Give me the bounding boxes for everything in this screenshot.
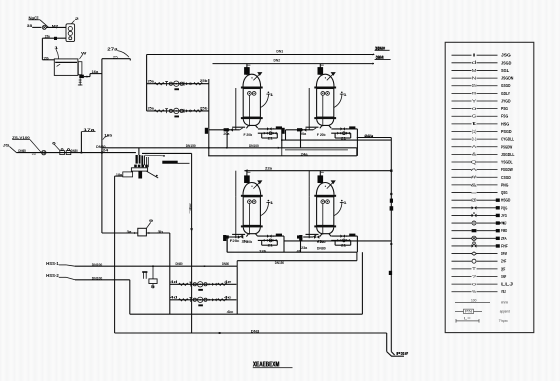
svg-text:21: 21 xyxy=(268,136,273,140)
F1 vent riser + valve xyxy=(244,64,262,81)
short link y150 xyxy=(285,149,348,151)
svg-text:PSG: PSG xyxy=(501,106,509,111)
svg-text:m: m xyxy=(472,91,477,96)
outfall hook label xyxy=(396,351,408,357)
svg-text:JYGD: JYGD xyxy=(501,98,511,103)
svg-text:JYG: JYG xyxy=(501,213,507,218)
riser V4 xyxy=(81,132,83,154)
H1 end arrow xyxy=(373,53,375,55)
pump P1a train xyxy=(147,79,209,90)
svg-text:YBJ: YBJ xyxy=(501,289,506,294)
tank T0 feed label xyxy=(29,16,49,28)
outfall hook xyxy=(387,352,404,357)
callout underlined xyxy=(12,136,41,152)
sampler tag xyxy=(151,285,155,289)
H5 label 2 xyxy=(71,149,78,153)
svg-text:DN3: DN3 xyxy=(251,330,259,334)
svg-text:(1): (1) xyxy=(472,129,477,134)
svg-text:38M#: 38M# xyxy=(375,46,386,51)
pipe softener to tank xyxy=(42,38,66,60)
svg-text:LLJ: LLJ xyxy=(501,282,514,287)
T-branch label xyxy=(364,135,375,139)
inlet2 flag xyxy=(46,261,75,266)
pipe VB xyxy=(114,176,116,333)
H5 label 3 xyxy=(102,149,108,153)
svg-text:Y: Y xyxy=(472,98,477,103)
svg-text:24a: 24a xyxy=(301,152,309,156)
svg-text:PQG: PQG xyxy=(501,205,508,210)
weir tag W xyxy=(80,52,88,59)
pump discharge header xyxy=(236,266,238,314)
svg-text:G: G xyxy=(472,114,477,119)
weir box xyxy=(78,62,82,75)
svg-text:DN100: DN100 xyxy=(92,276,102,280)
gate valve tag xyxy=(52,141,60,150)
H2 end arrow xyxy=(372,62,374,64)
svg-text:xx: xx xyxy=(78,83,84,87)
svg-text:FSG: FSG xyxy=(501,114,509,119)
svg-text:15b: 15b xyxy=(43,57,48,61)
svg-text:4e: 4e xyxy=(224,296,233,300)
tank outlet valve xyxy=(79,75,90,78)
svg-text:39M: 39M xyxy=(376,55,384,60)
pipe bottom outfall xyxy=(115,332,387,334)
svg-text:4c: 4c xyxy=(227,310,234,314)
svg-text:HSG: HSG xyxy=(501,121,510,126)
svg-text:T: T xyxy=(472,266,477,271)
feed header label xyxy=(265,166,273,170)
softener U2 tag xyxy=(72,17,79,23)
legend box xyxy=(445,42,534,332)
svg-text:HSS-1: HSS-1 xyxy=(46,261,59,266)
svg-text:Q: Q xyxy=(471,159,477,165)
pipe H5 xyxy=(16,152,135,154)
F3 feed riser + valve xyxy=(236,171,263,197)
svg-text:DN100: DN100 xyxy=(249,144,259,148)
svg-text:DN100: DN100 xyxy=(92,263,102,267)
svg-text:mm: mm xyxy=(501,301,508,305)
svg-text:DN1: DN1 xyxy=(276,50,284,54)
dosing riser xyxy=(138,148,140,155)
svg-text:I: I xyxy=(472,53,477,58)
line2 label xyxy=(92,276,102,280)
manifold row1 F1 xyxy=(205,126,282,147)
svg-text:TYspec: TYspec xyxy=(499,319,508,323)
svg-text:21: 21 xyxy=(341,244,346,248)
svg-text:F 20b: F 20b xyxy=(244,133,253,137)
dosing label xyxy=(52,24,59,28)
svg-text:|4|: |4| xyxy=(189,202,192,214)
pipe H1 header xyxy=(147,54,375,56)
valve V3 black xyxy=(54,37,57,40)
valve XV1 xyxy=(42,25,66,29)
svg-text:16b: 16b xyxy=(104,133,113,137)
pipe label 15b xyxy=(43,57,48,61)
dosing pointer xyxy=(146,171,158,178)
dosing unit pumps xyxy=(136,155,149,167)
svg-text:%: % xyxy=(472,289,477,294)
pipe meter to suction xyxy=(146,232,169,234)
label above H6 left xyxy=(96,145,105,149)
pipe H7 drain collector xyxy=(208,155,357,157)
svg-text:25b: 25b xyxy=(200,106,208,110)
meter box xyxy=(134,219,153,236)
pipe label 15a xyxy=(45,35,50,39)
svg-text:NaCl: NaCl xyxy=(29,16,40,22)
pipe riser x362 xyxy=(361,252,363,314)
svg-text:DN50: DN50 xyxy=(71,149,78,153)
tank outlet pipe xyxy=(90,74,102,77)
svg-text:DN150: DN150 xyxy=(186,144,196,148)
pipe VA to meter xyxy=(102,232,138,234)
valve XV2 xyxy=(42,150,46,154)
sampler box xyxy=(149,266,157,288)
svg-text:A: A xyxy=(472,144,477,149)
svg-text:24: 24 xyxy=(102,149,108,153)
svg-text:DN150: DN150 xyxy=(275,261,284,265)
svg-text:17a: 17a xyxy=(83,128,95,132)
svg-text:DFM: DFM xyxy=(501,251,507,256)
F2 vent riser + valve xyxy=(318,64,336,81)
H6 labels xyxy=(186,144,280,149)
T1 right drop junction xyxy=(281,139,283,156)
svg-text:PS#: PS# xyxy=(397,351,409,357)
VD label xyxy=(189,202,193,232)
H2 label xyxy=(274,58,281,62)
row2 labels xyxy=(301,246,326,251)
svg-text:M: M xyxy=(472,68,477,73)
H5 label DN xyxy=(18,149,25,153)
svg-text:DN80: DN80 xyxy=(222,262,229,266)
inlet3 flag xyxy=(46,273,75,280)
pipe inlet line2 xyxy=(75,280,130,314)
svg-text:#: # xyxy=(471,175,478,181)
svg-text:4b: 4b xyxy=(297,249,302,253)
filter vessel F4 xyxy=(309,183,348,239)
suction label xyxy=(227,310,234,314)
svg-text:23b: 23b xyxy=(259,250,267,254)
svg-text:HSS-2: HSS-2 xyxy=(46,273,59,278)
svg-text:2: 2 xyxy=(75,17,79,21)
svg-text:1: 1 xyxy=(270,201,274,205)
sampler hatches xyxy=(142,271,147,279)
F3 left leg xyxy=(227,237,239,252)
pipe inlet line1 xyxy=(75,262,237,267)
small box at VB top xyxy=(115,172,133,177)
svg-text:16a: 16a xyxy=(92,70,100,74)
svg-text:L=: L= xyxy=(464,317,471,321)
svg-text:QBF: QBF xyxy=(501,266,505,271)
svg-text:25: 25 xyxy=(113,56,118,60)
title text xyxy=(253,359,293,368)
pipe suction y314 xyxy=(130,313,363,315)
svg-text:4d: 4d xyxy=(170,280,178,284)
svg-text:25a: 25a xyxy=(148,79,155,83)
pump suction header xyxy=(169,233,171,314)
H1 label xyxy=(276,50,284,54)
manifold row2 F4 xyxy=(297,234,357,253)
svg-text:JSGDN: JSGDN xyxy=(501,76,513,81)
pump P2b train xyxy=(170,296,237,307)
drain stub xyxy=(78,78,84,87)
svg-text:DN65: DN65 xyxy=(18,149,25,153)
H7 label xyxy=(301,152,309,156)
dosing shelf xyxy=(131,168,147,171)
svg-text:DN80: DN80 xyxy=(96,145,105,149)
line1 label xyxy=(92,263,102,267)
filter vessel F1 xyxy=(236,74,275,130)
svg-text:18a: 18a xyxy=(116,173,122,177)
svg-text:25a: 25a xyxy=(148,107,155,111)
salt tank T1 tag xyxy=(54,46,59,59)
svg-text:YLJ: YLJ xyxy=(501,221,507,226)
pipe feed header row2 xyxy=(244,169,392,172)
svg-text:GSGD: GSGD xyxy=(501,83,510,88)
pipe H6 backwash collector xyxy=(102,148,357,156)
H2 exit flag xyxy=(375,55,391,60)
svg-text:SGL: SGL xyxy=(501,68,510,73)
svg-text:o: o xyxy=(472,106,478,111)
dosing callout xyxy=(162,161,189,164)
svg-text:26b: 26b xyxy=(364,134,374,138)
meter labels xyxy=(127,230,164,234)
svg-text:4d: 4d xyxy=(170,296,178,300)
stub small label xyxy=(113,56,118,60)
svg-text:CYGDLL: CYGDLL xyxy=(501,137,514,142)
svg-text:JSG: JSG xyxy=(501,53,512,58)
svg-text:20a: 20a xyxy=(223,132,229,136)
callout near VA xyxy=(103,133,113,139)
F4 feed riser + valve xyxy=(309,171,336,197)
pump P1b train xyxy=(147,106,209,117)
svg-text:d: d xyxy=(472,60,478,65)
svg-text:100: 100 xyxy=(471,299,476,303)
stub label callout xyxy=(107,47,129,58)
pipe clean header y260 xyxy=(237,261,357,267)
manifold row2 F3 xyxy=(223,234,284,253)
svg-text:DN: DN xyxy=(472,83,477,88)
svg-text:DN80: DN80 xyxy=(176,262,183,266)
svg-text:ZFA: ZFA xyxy=(501,236,507,241)
svg-text:PNG: PNG xyxy=(501,182,509,187)
pipe H_L3 xyxy=(142,152,192,154)
pipe row2 bottom collector xyxy=(227,252,357,261)
svg-text:21: 21 xyxy=(268,244,273,248)
svg-text:YSGDL: YSGDL xyxy=(501,160,513,165)
svg-text:15a: 15a xyxy=(45,35,50,39)
svg-text:xx: xx xyxy=(32,152,37,156)
svg-text:PSGDW: PSGDW xyxy=(501,144,513,149)
svg-text:@: @ xyxy=(471,198,477,204)
dosing pump heads xyxy=(134,165,148,168)
filter vessel F2 xyxy=(309,74,348,130)
svg-text:DN80: DN80 xyxy=(317,247,326,251)
svg-text:PSGD: PSGD xyxy=(501,129,512,134)
svg-text:1: 1 xyxy=(343,93,347,97)
H5 blob xyxy=(32,152,37,156)
F2 left-branch drop xyxy=(285,130,287,140)
outfall label xyxy=(251,330,259,334)
svg-text:1: 1 xyxy=(270,93,274,97)
H5 junction VA xyxy=(101,152,103,154)
svg-text:GDLY: GDLY xyxy=(501,91,510,96)
svg-text:F20c: F20c xyxy=(230,239,240,243)
svg-text:23a: 23a xyxy=(301,246,308,250)
svg-text:QSG: QSG xyxy=(501,190,508,195)
stub pipe top xyxy=(102,59,130,61)
svg-text:38: 38 xyxy=(27,24,32,28)
gate valves pair xyxy=(60,149,71,155)
dosing stand xyxy=(138,171,142,178)
svg-text:HSGD: HSGD xyxy=(501,198,510,203)
svg-text:ZHF: ZHF xyxy=(501,259,506,264)
pipe VR xyxy=(357,138,392,352)
pipe H2 vent header xyxy=(213,63,375,65)
svg-text:o: o xyxy=(472,281,477,286)
pipe T-branch y140 xyxy=(282,139,392,141)
svg-text:25b: 25b xyxy=(200,79,208,83)
svg-text:27a: 27a xyxy=(107,47,118,52)
svg-text:JSGD: JSGD xyxy=(501,60,511,65)
svg-text:N: N xyxy=(472,75,477,80)
dosing top pointer xyxy=(145,155,165,157)
svg-text:FMD: FMD xyxy=(501,228,507,233)
svg-text:F 20b: F 20b xyxy=(244,240,253,244)
pipe V1 xyxy=(146,55,148,111)
pipe T-branch y241 xyxy=(284,240,391,242)
svg-text:F 20b: F 20b xyxy=(317,133,326,137)
svg-text:&: & xyxy=(472,152,477,157)
svg-text:1: 1 xyxy=(343,201,347,205)
manifold row1 F2 xyxy=(282,126,358,155)
pipe VA vertical xyxy=(101,59,103,233)
pipe outfall drop xyxy=(386,333,388,352)
outlet label xyxy=(92,70,100,74)
svg-text:4e: 4e xyxy=(224,280,233,284)
svg-text:DN2: DN2 xyxy=(274,58,281,62)
riser V4 flag xyxy=(81,128,95,132)
H1 exit flag xyxy=(375,46,390,51)
inlet label xyxy=(27,24,42,28)
svg-text:SNF: SNF xyxy=(501,274,506,279)
inlet flag label xyxy=(3,143,17,152)
svg-text:?: ? xyxy=(472,274,477,279)
filter vessel F3 xyxy=(236,183,275,239)
svg-text:CSGD: CSGD xyxy=(501,175,511,180)
svg-text:5: 5 xyxy=(151,285,155,289)
row2 collector labels xyxy=(259,249,301,253)
softener U2 body xyxy=(66,24,75,42)
clean header label xyxy=(275,261,284,265)
pipe V2 pump discharge xyxy=(208,79,210,156)
salt tank T1 body xyxy=(54,59,78,76)
svg-text:A: A xyxy=(471,167,478,173)
svg-text:9: 9 xyxy=(149,219,153,223)
pump P2a train xyxy=(170,280,237,291)
svg-text:FHF: FHF xyxy=(501,243,508,248)
pipe VD xyxy=(191,153,193,333)
svg-text:JSGDLL: JSGDLL xyxy=(501,152,515,157)
svg-text:D-1: D-1 xyxy=(472,136,477,141)
svg-text:PN: PN xyxy=(465,310,472,314)
svg-text:append: append xyxy=(500,310,510,314)
VR labels xyxy=(364,134,393,275)
svg-text:22a: 22a xyxy=(265,166,273,170)
svg-text:=: = xyxy=(471,191,477,196)
svg-text:FSGDW: FSGDW xyxy=(501,167,514,172)
